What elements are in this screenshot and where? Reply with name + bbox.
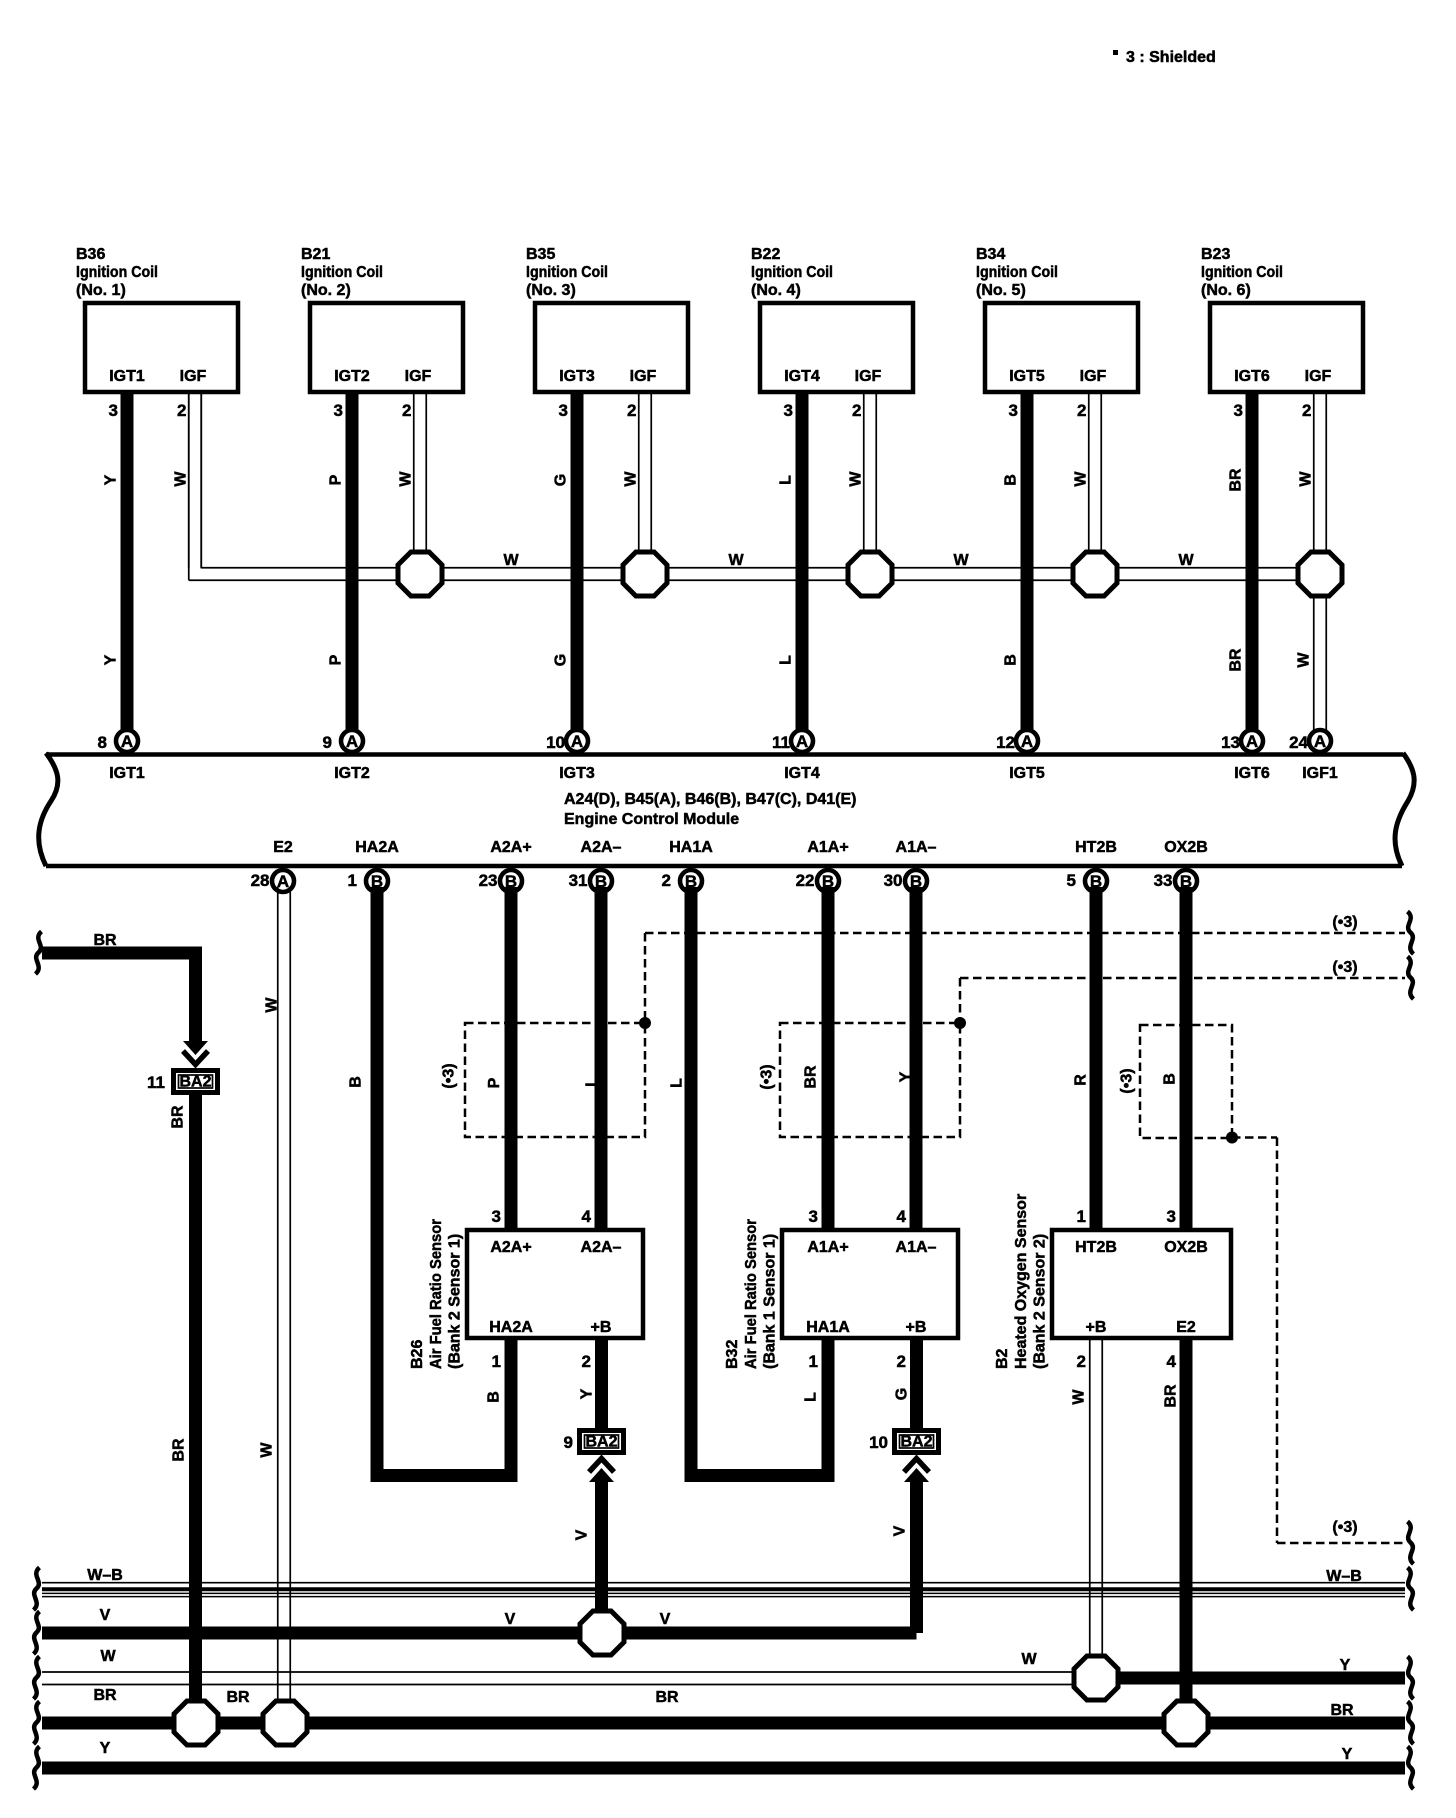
svg-text:33: 33 [1154,871,1173,890]
junction E2 wire to BR bus [263,1701,307,1745]
svg-text:B23: B23 [1201,246,1230,263]
svg-text:A: A [121,732,133,751]
wire IGF (W) from B22 pin 2 [863,394,865,552]
svg-text:IGT5: IGT5 [1009,368,1045,385]
svg-text:3: 3 [1234,401,1243,420]
wire IGT2 (P) from B21 pin 3 to ECM [346,394,359,733]
svg-text:B34: B34 [976,246,1005,263]
svg-text:24: 24 [1289,733,1308,752]
svg-text:BR: BR [93,1687,117,1704]
wire IGT5 (B) from B34 pin 3 to ECM [1021,394,1034,733]
svg-text:Ignition Coil: Ignition Coil [301,264,383,281]
svg-text:L: L [778,475,795,485]
ECM pin 24 (IGF1) connector A [1309,730,1331,752]
svg-text:A: A [796,732,808,751]
svg-text:L: L [778,655,795,665]
svg-text:Engine Control Module: Engine Control Module [564,811,739,828]
svg-text:IGT4: IGT4 [784,765,820,782]
svg-text:A: A [346,732,358,751]
svg-text:IGT3: IGT3 [559,765,595,782]
wire BR from left (body ground feed) [42,953,196,1044]
svg-text:B: B [348,1076,365,1088]
ignition coil B21 (No. 2) box [310,303,463,392]
svg-text:W: W [1178,552,1194,569]
svg-text:+B: +B [906,1319,927,1336]
svg-text:W: W [264,997,281,1013]
svg-text:4: 4 [582,1207,592,1226]
svg-text:3: 3 [559,401,568,420]
shield box around A2A+/A2A- wires [465,1023,645,1137]
svg-text:(Bank 1 Sensor 1): (Bank 1 Sensor 1) [762,1234,779,1369]
svg-text:Y: Y [100,1740,111,1757]
wire W horizontal runs between shielded junctions [445,567,621,569]
svg-text:3: 3 [1167,1207,1176,1226]
bus BR (ground) [42,1717,1405,1730]
svg-text:2: 2 [177,401,186,420]
svg-text:2: 2 [1077,1352,1086,1371]
svg-text:(•3): (•3) [759,1064,776,1089]
shield dashed line 2 (A1A shield to right edge) [960,977,1405,980]
svg-text:Heated Oxygen Sensor: Heated Oxygen Sensor [1013,1194,1030,1369]
ignition coil B34 (No. 5) box [985,303,1138,392]
svg-text:W: W [953,552,969,569]
wire IGF (W) from B23 pin 2 [1313,394,1315,552]
svg-text:Air Fuel Ratio Sensor: Air Fuel Ratio Sensor [743,1219,760,1369]
svg-text:W: W [503,552,519,569]
svg-text:31: 31 [569,871,588,890]
svg-text:Y: Y [103,474,120,485]
shield box around OX2B wire [1140,1025,1232,1138]
svg-text:V: V [892,1525,909,1536]
shield junction dot box1 [639,1017,651,1029]
ECM pin 13 (IGT6) connector A [1241,730,1263,752]
svg-text:A: A [277,872,289,891]
svg-text:A1A–: A1A– [896,1239,937,1256]
svg-text:3: 3 [1009,401,1018,420]
wire V from BA2 #10 down to V bus [910,1479,923,1633]
junction BA2 #10 [895,1431,939,1453]
svg-text:P: P [328,474,345,485]
ignition coil B35 (No. 3) box [535,303,688,392]
svg-text:12: 12 [996,733,1015,752]
wire A1A+ (BR) ECM pin22 to B32 pin3 [822,887,835,1228]
svg-text:A2A+: A2A+ [490,1239,531,1256]
svg-text:B21: B21 [301,246,330,263]
svg-text:V: V [505,1611,516,1628]
svg-text:1: 1 [809,1352,818,1371]
svg-text:30: 30 [884,871,903,890]
ECM bottom edge [46,864,1402,869]
svg-text:BR: BR [1330,1702,1354,1719]
svg-text:B: B [1003,654,1020,666]
wire IGT4 (L) from B22 pin 3 to ECM [796,394,809,733]
junction BA2 #9 [580,1431,624,1453]
wire IGT3 (G) from B35 pin 3 to ECM [571,394,584,733]
svg-text:3: 3 [809,1207,818,1226]
svg-text:W: W [398,471,415,487]
shield box around A1A+/A1A- wires [780,1023,960,1137]
wire A2A- (L) ECM pin31 to B26 pin4 [595,887,608,1228]
svg-text:B36: B36 [76,246,105,263]
svg-text:2: 2 [402,401,411,420]
svg-text:IGF: IGF [180,368,207,385]
svg-text:E2: E2 [273,839,293,856]
svg-text:A: A [1246,732,1258,751]
svg-text:G: G [553,654,570,666]
shield dashed line 3 (OX2B shield to bottom right) [1232,1136,1277,1139]
svg-text:1: 1 [348,871,357,890]
svg-text:3 : Shielded: 3 : Shielded [1126,49,1216,66]
svg-text:4: 4 [1167,1352,1177,1371]
wire HA1A (L) ECM pin2 U-loop to B32 pin1 [691,887,828,1476]
arrow into BA2 #9 [589,1468,614,1482]
svg-text:3: 3 [784,401,793,420]
svg-text:(Bank 2 Sensor 2): (Bank 2 Sensor 2) [1032,1234,1049,1369]
svg-text:W: W [728,552,744,569]
svg-text:1: 1 [1077,1207,1086,1226]
bus V [42,1627,917,1640]
svg-text:IGT2: IGT2 [334,765,370,782]
svg-text:(No. 6): (No. 6) [1201,282,1251,299]
svg-text:Ignition Coil: Ignition Coil [526,264,608,281]
svg-text:A2A–: A2A– [581,839,622,856]
svg-text:IGT4: IGT4 [784,368,820,385]
svg-text:2: 2 [897,1352,906,1371]
svg-text:13: 13 [1221,733,1240,752]
svg-text:11: 11 [772,733,790,752]
junction BR wire to BR bus [174,1701,218,1745]
svg-text:L: L [803,1392,820,1402]
svg-text:9: 9 [564,1433,573,1452]
wire A1A- (Y) ECM pin30 to B32 pin4 [910,887,923,1228]
svg-text:A2A+: A2A+ [490,839,531,856]
svg-text:2: 2 [662,871,671,890]
svg-text:A1A+: A1A+ [807,1239,848,1256]
svg-text:W: W [1296,652,1313,668]
svg-text:IGF: IGF [630,368,657,385]
wire W from B2 +B to W bus junction [1089,1340,1091,1656]
wire BR from B2 E2 to ground bus junction [1180,1340,1193,1701]
svg-text:IGT1: IGT1 [109,368,145,385]
note: 3 Shielded [1113,50,1118,55]
svg-text:W: W [100,1648,116,1665]
svg-text:IGT1: IGT1 [109,765,145,782]
ignition coil B23 (No. 6) box [1210,303,1363,392]
junction V wire to V bus [580,1611,624,1655]
junction BA2 #11 [174,1071,218,1093]
svg-text:(•3): (•3) [1119,1068,1136,1093]
svg-text:3: 3 [109,401,118,420]
svg-text:3: 3 [334,401,343,420]
shielded junction (octagon) at x=870 coil row [848,552,892,596]
svg-text:BA2: BA2 [900,1434,932,1451]
svg-text:B: B [486,1391,503,1403]
wire IGT6 (BR) from B23 pin 3 to ECM [1246,394,1259,733]
ECM pin 11 (IGT4) connector A [791,730,813,752]
junction OX2B BR wire to BR bus [1164,1701,1208,1745]
svg-text:IGT6: IGT6 [1234,765,1270,782]
svg-text:10: 10 [869,1433,888,1452]
svg-text:Y: Y [103,654,120,665]
svg-text:A: A [1021,732,1033,751]
svg-text:22: 22 [796,871,815,890]
junction W wire to W bus [1074,1656,1118,1700]
shielded junction (octagon) at x=420 coil row [398,552,442,596]
svg-text:IGT6: IGT6 [1234,368,1270,385]
svg-text:IGF: IGF [1080,368,1107,385]
svg-text:W: W [173,471,190,487]
svg-text:IGF1: IGF1 [1302,765,1338,782]
svg-text:W: W [623,471,640,487]
svg-text:A2A–: A2A– [581,1239,622,1256]
wire V from BA2 #9 to V bus junction [595,1479,608,1612]
svg-text:OX2B: OX2B [1164,839,1208,856]
ignition coil B22 (No. 4) box [760,303,913,392]
svg-text:B32: B32 [724,1340,741,1369]
svg-text:W: W [1298,471,1315,487]
svg-text:A: A [571,732,583,751]
shield dashed line 1 (A2A shield to right edge) [645,932,1405,935]
svg-text:A1A+: A1A+ [807,839,848,856]
wire IGT1 (Y) from B36 pin 3 to ECM [121,394,134,733]
sensor B2 box [1052,1230,1231,1338]
wire E2 (W) ECM pin28 to ground junction [277,887,279,1701]
svg-text:W–B: W–B [1326,1568,1362,1585]
svg-text:(•3): (•3) [1332,914,1357,931]
ignition coil B36 (No. 1) box [85,303,238,392]
svg-text:B35: B35 [526,246,555,263]
wire BR below BA2 #11 to ground bus [189,1095,202,1701]
wire HA2A (B) ECM pin1 U-loop to B26 pin1 [377,887,511,1476]
bus Y [42,1762,1405,1775]
sensor B26 box [467,1230,643,1338]
svg-text:IGT5: IGT5 [1009,765,1045,782]
svg-text:2: 2 [627,401,636,420]
svg-text:Air Fuel Ratio Sensor: Air Fuel Ratio Sensor [428,1219,445,1369]
svg-text:IGF: IGF [1305,368,1332,385]
shielded junction (octagon) at x=1320 coil row [1298,552,1342,596]
svg-text:4: 4 [897,1207,907,1226]
svg-text:IGT3: IGT3 [559,368,595,385]
svg-text:2: 2 [582,1352,591,1371]
svg-text:BR: BR [170,1105,187,1129]
svg-text:BR: BR [93,932,117,949]
svg-text:P: P [486,1077,503,1088]
svg-text:Y: Y [1342,1746,1353,1763]
svg-text:(Bank 2 Sensor 1): (Bank 2 Sensor 1) [447,1234,464,1369]
svg-text:W: W [848,471,865,487]
svg-text:V: V [100,1607,111,1624]
svg-text:(•3): (•3) [441,1063,458,1088]
svg-text:W: W [1021,1651,1037,1668]
wire Y from B26 +B down [595,1340,608,1428]
svg-text:BR: BR [1228,648,1245,672]
svg-text:(•3): (•3) [1332,959,1357,976]
svg-text:IGF: IGF [855,368,882,385]
svg-text:B: B [1003,474,1020,486]
svg-text:(No. 3): (No. 3) [526,282,576,299]
ECM top edge [46,752,1403,757]
svg-text:BR: BR [1228,468,1245,492]
ECM pin 12 (IGT5) connector A [1016,730,1038,752]
svg-text:BR: BR [803,1065,820,1089]
svg-text:HT2B: HT2B [1075,839,1117,856]
arrow into BA2 #10 [904,1468,929,1482]
svg-text:B22: B22 [751,246,780,263]
svg-text:BA2: BA2 [179,1074,211,1091]
svg-text:BR: BR [1163,1384,1180,1408]
svg-text:L: L [669,1078,686,1088]
svg-text:Y: Y [579,1388,596,1399]
svg-text:V: V [660,1611,671,1628]
wire IGF (W) from B35 pin 2 [638,394,640,552]
svg-text:2: 2 [1077,401,1086,420]
svg-text:W: W [259,1442,276,1458]
svg-text:W–B: W–B [87,1567,123,1584]
wire A2A+ (P) ECM pin23 to B26 pin3 [505,887,518,1228]
svg-text:9: 9 [323,733,332,752]
svg-text:HT2B: HT2B [1075,1239,1117,1256]
svg-text:(No. 4): (No. 4) [751,282,801,299]
svg-text:11: 11 [147,1073,165,1092]
svg-text:5: 5 [1067,871,1076,890]
wire IGF (W) from B21 pin 2 [413,394,415,552]
ECM pin 8 (IGT1) connector A [116,730,138,752]
svg-text:3: 3 [492,1207,501,1226]
svg-text:BR: BR [226,1689,250,1706]
svg-text:E2: E2 [1176,1319,1196,1336]
wire HT2B (R) ECM pin5 to B2 pin1 [1090,887,1103,1228]
shielded junction (octagon) at x=645 coil row [623,552,667,596]
svg-text:8: 8 [98,733,107,752]
svg-text:IGF: IGF [405,368,432,385]
svg-text:+B: +B [591,1319,612,1336]
svg-text:1: 1 [492,1352,501,1371]
ECM pin 10 (IGT3) connector A [566,730,588,752]
wire OX2B (B) ECM pin33 to B2 pin3 [1180,887,1193,1228]
svg-text:W: W [1073,471,1090,487]
svg-text:BA2: BA2 [585,1434,617,1451]
svg-text:G: G [553,474,570,486]
wire G from B32 +B down [910,1340,923,1428]
svg-text:B: B [1162,1073,1179,1085]
svg-text:2: 2 [852,401,861,420]
svg-text:HA2A: HA2A [355,839,399,856]
svg-text:W: W [1071,1389,1088,1405]
ECM right torn edge [1395,753,1414,866]
shield junction dot box3 [1226,1132,1238,1144]
svg-text:(No. 1): (No. 1) [76,282,126,299]
svg-text:B26: B26 [409,1340,426,1369]
bus W-B (white-black) [42,1582,1405,1584]
svg-text:Ignition Coil: Ignition Coil [76,264,158,281]
svg-text:2: 2 [1302,401,1311,420]
svg-text:G: G [894,1388,911,1400]
wire IGF W horizontal run from coil 1 to junction at coil 2 [188,394,190,580]
svg-text:B2: B2 [994,1348,1011,1369]
svg-text:Y: Y [898,1071,915,1082]
wire IGF (W) from B36 pin 2 [188,394,190,568]
svg-text:(No. 2): (No. 2) [301,282,351,299]
wire Y right of W junction [1096,1672,1405,1685]
shielded junction (octagon) at x=1095 coil row [1073,552,1117,596]
arrow into BA2 #11 [183,1041,208,1055]
sensor B32 box [782,1230,958,1338]
svg-text:HA2A: HA2A [489,1319,533,1336]
svg-text:OX2B: OX2B [1164,1239,1208,1256]
svg-text:Y: Y [1340,1657,1351,1674]
wire IGF (W) from B34 pin 2 [1088,394,1090,552]
svg-text:10: 10 [546,733,565,752]
svg-text:Ignition Coil: Ignition Coil [751,264,833,281]
svg-text:BR: BR [655,1689,679,1706]
ECM left torn edge [39,753,58,866]
svg-text:HA1A: HA1A [806,1319,850,1336]
svg-text:IGT2: IGT2 [334,368,370,385]
svg-text:P: P [328,654,345,665]
svg-text:A24(D), B45(A), B46(B), B47(C): A24(D), B45(A), B46(B), B47(C), D41(E) [564,791,857,808]
svg-text:Ignition Coil: Ignition Coil [1201,264,1283,281]
svg-text:A1A–: A1A– [896,839,937,856]
svg-text:(No. 5): (No. 5) [976,282,1026,299]
svg-text:28: 28 [251,871,270,890]
svg-text:HA1A: HA1A [669,839,713,856]
svg-text:R: R [1073,1074,1090,1086]
svg-text:BR: BR [171,1438,188,1462]
ECM pin 9 (IGT2) connector A [341,730,363,752]
svg-text:V: V [574,1529,591,1540]
wire W from junction to ECM IGF1 pin 24 [1313,596,1315,733]
svg-text:+B: +B [1086,1319,1107,1336]
shield junction dot box2 [954,1017,966,1029]
svg-text:Ignition Coil: Ignition Coil [976,264,1058,281]
svg-text:A: A [1314,732,1326,751]
bus W (open) [42,1671,1096,1673]
svg-text:23: 23 [479,871,498,890]
svg-text:L: L [584,1077,601,1087]
svg-text:(•3): (•3) [1332,1519,1357,1536]
